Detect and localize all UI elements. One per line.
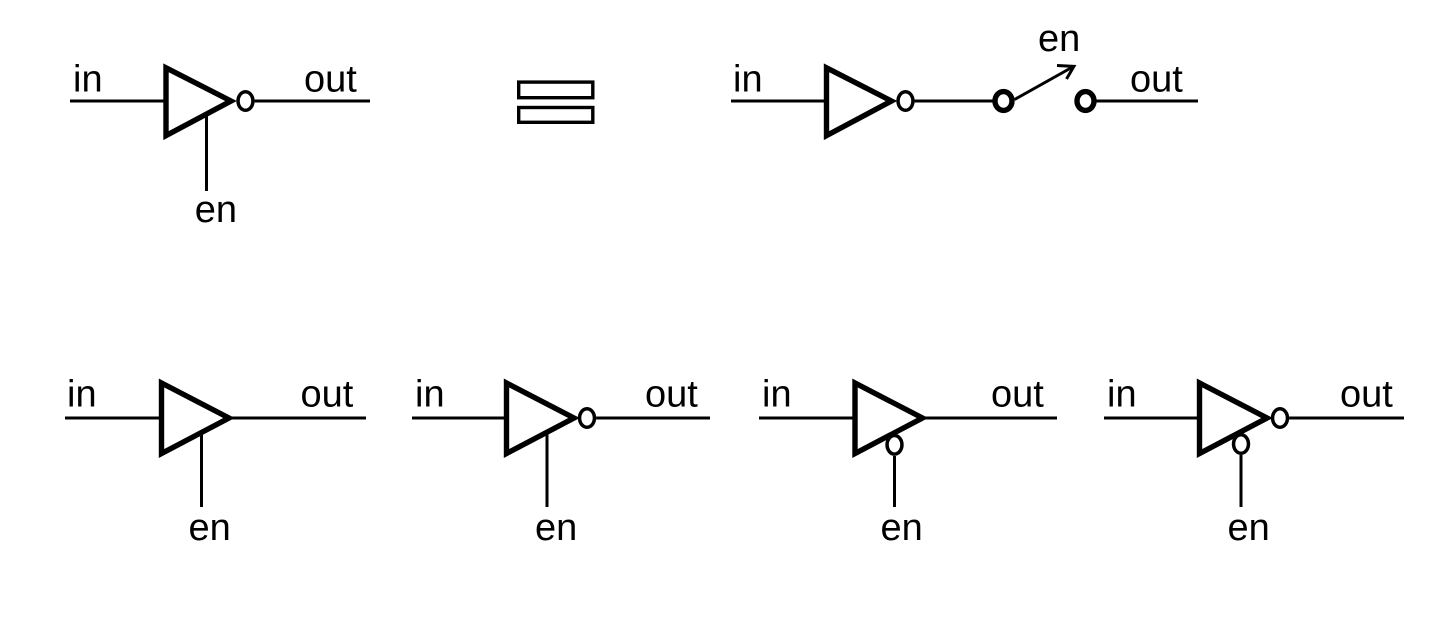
svg-text:out: out	[1130, 59, 1183, 101]
bubble: U4 output inversion	[580, 409, 595, 428]
switch SW1 right pole	[1077, 92, 1094, 111]
equals sign: top bar	[519, 82, 593, 98]
svg-text:en: en	[1038, 18, 1080, 60]
svg-text:en: en	[881, 507, 923, 549]
tri-state buffer U5 triangle (active-low en)	[855, 383, 923, 454]
wire: input of tri-state inverter U1	[70, 100, 166, 103]
svg-text:in: in	[73, 59, 103, 101]
wire: enable of U5	[893, 456, 896, 507]
wire: input of inverter U2	[731, 100, 826, 103]
wire: input of tri-state inverter U4	[412, 417, 506, 420]
wire: output of U3	[230, 417, 366, 420]
svg-text:out: out	[1340, 374, 1393, 416]
svg-text:en: en	[535, 507, 577, 549]
wire: output of U1	[255, 100, 370, 103]
switch SW1 arm	[1015, 67, 1074, 100]
svg-text:in: in	[415, 374, 445, 416]
tri-state inverter U1 triangle	[166, 68, 231, 136]
tri-state inverter U6 triangle (active-low en)	[1200, 383, 1268, 454]
switch SW1 arrowhead	[1057, 66, 1074, 80]
wire: output of SW1	[1096, 100, 1198, 103]
wire: enable of U4	[546, 432, 549, 507]
svg-text:in: in	[67, 374, 97, 416]
bubble: U6 output inversion	[1273, 409, 1288, 428]
wire: enable of U6	[1240, 455, 1243, 507]
wire: input of buffer U3	[65, 417, 161, 420]
svg-text:en: en	[189, 507, 231, 549]
wire: output of U5	[924, 417, 1058, 420]
bubble: U1 output inversion	[238, 92, 253, 111]
bubble: U5 enable inversion	[887, 436, 902, 455]
wire: enable of U1	[205, 114, 208, 192]
wire: output of U6	[1289, 417, 1404, 420]
svg-text:in: in	[733, 59, 763, 101]
svg-text:in: in	[1107, 374, 1137, 416]
switch SW1 left pole	[995, 92, 1012, 111]
svg-text:out: out	[645, 374, 698, 416]
inverter U2 triangle	[827, 68, 892, 136]
wire: input of tri-state inverter U6	[1104, 417, 1200, 420]
tri-state buffer U3 triangle (active-high en)	[162, 383, 230, 454]
equals sign: bottom bar	[519, 108, 593, 123]
wire: U2 output to switch SW1	[915, 100, 994, 103]
svg-text:out: out	[301, 374, 354, 416]
svg-text:en: en	[195, 189, 237, 231]
svg-text:out: out	[304, 59, 357, 101]
svg-text:in: in	[762, 374, 792, 416]
wire: enable of U3	[200, 432, 203, 507]
svg-text:out: out	[991, 374, 1044, 416]
wire: input of buffer U5	[759, 417, 855, 420]
bubble: U6 enable inversion	[1234, 435, 1249, 454]
svg-text:en: en	[1228, 507, 1270, 549]
wire: output of U4	[596, 417, 710, 420]
bubble: U2 output inversion	[898, 92, 913, 111]
tri-state inverter U4 triangle (active-high en)	[507, 383, 575, 454]
